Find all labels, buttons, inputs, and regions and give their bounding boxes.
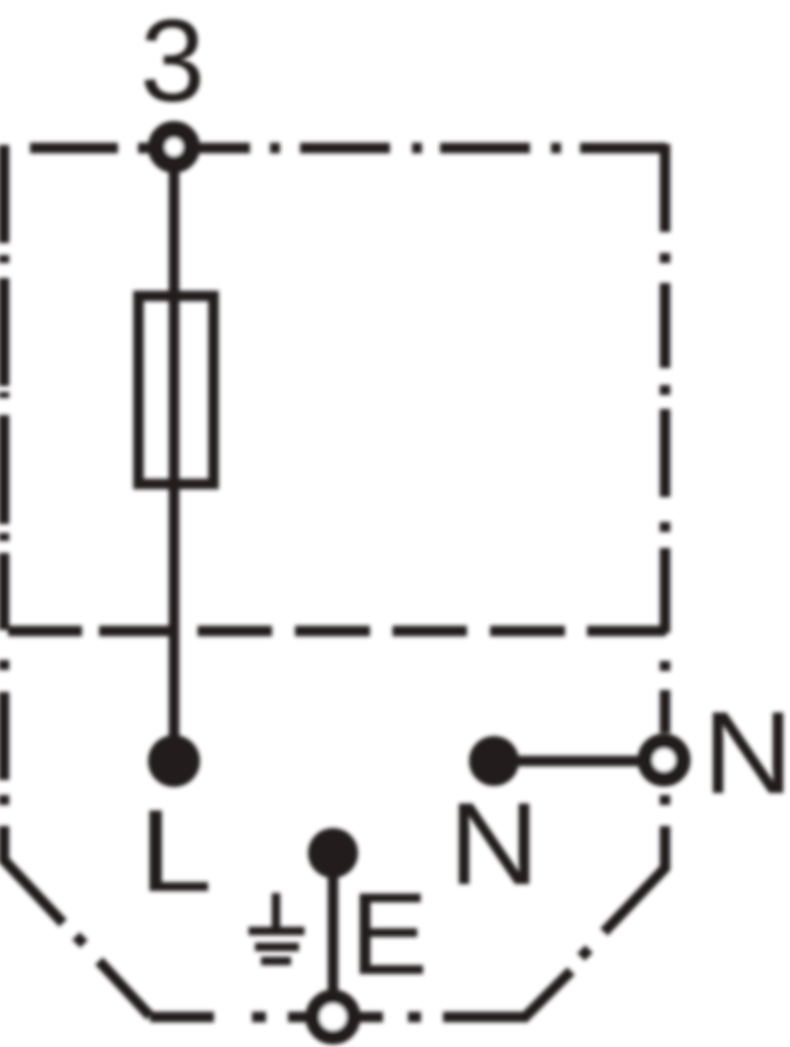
wire: middle dashed separation line (8, 626, 666, 637)
terminal 3 (open circle) (157, 130, 192, 165)
fuse F1 (139, 296, 214, 484)
wire: top enclosure dash-dot boundary (30, 143, 666, 154)
wire: left enclosure dash-dot boundary (4, 145, 150, 1016)
junction dot N (469, 736, 519, 786)
junction dot E (308, 828, 358, 878)
wire: bottom enclosure dash-dot boundary (150, 1012, 527, 1023)
wire: neutral link (494, 756, 646, 767)
svg-text:E: E (350, 868, 428, 999)
wire: right enclosure dash-dot boundary (523, 144, 665, 1019)
svg-text:N: N (449, 778, 540, 909)
terminal N (open circle) (645, 741, 683, 779)
svg-text:L: L (139, 785, 213, 916)
earth ground symbol (249, 893, 305, 961)
svg-text:3: 3 (140, 0, 205, 126)
junction dot L (148, 735, 200, 787)
terminal E (open circle) (313, 997, 354, 1038)
svg-text:N: N (703, 687, 790, 818)
wire: earth wire (328, 853, 339, 1010)
wire: live (L) feed from terminal 3 through fuse (169, 148, 180, 761)
